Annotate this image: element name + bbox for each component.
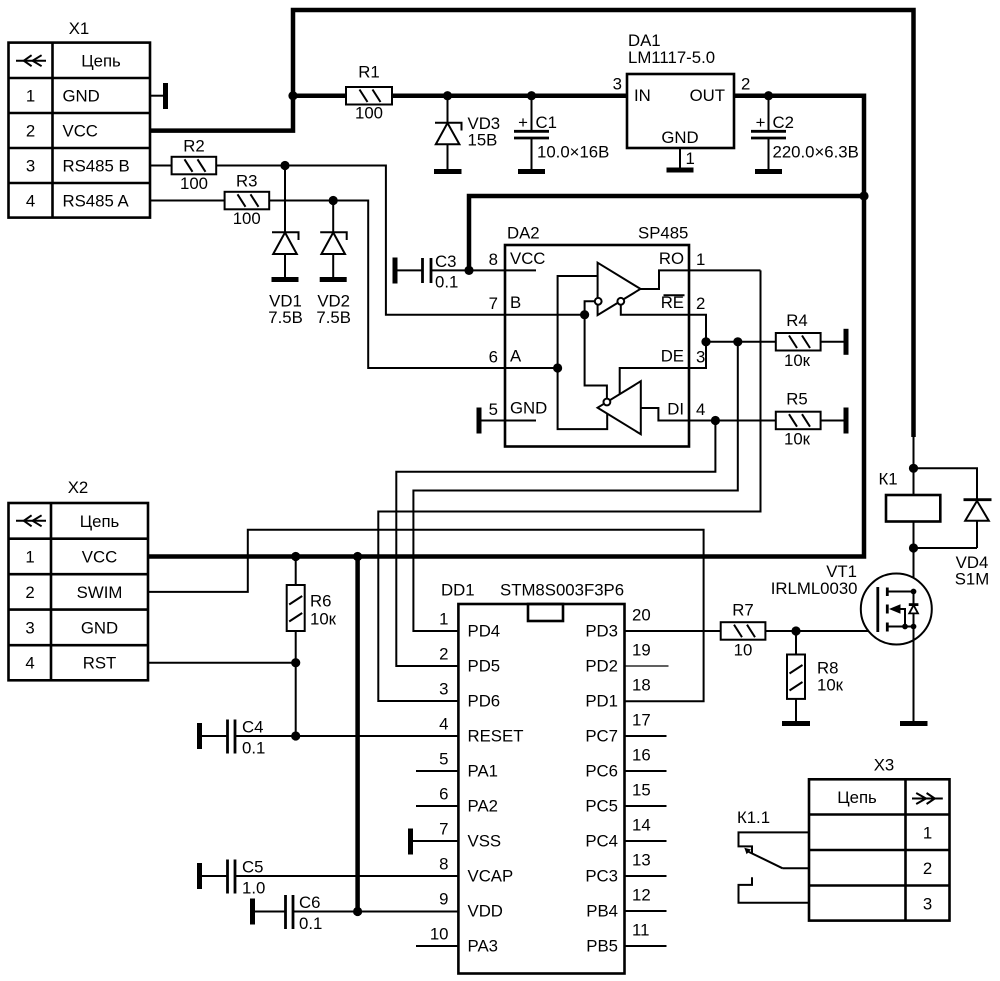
resistor R2 <box>172 137 217 194</box>
svg-text:R3: R3 <box>236 172 257 191</box>
svg-text:IN: IN <box>634 86 651 105</box>
junction node VT1 drain stub <box>911 589 917 595</box>
ground VD2 <box>320 277 347 282</box>
junction node gate at R8 <box>791 626 800 635</box>
capacitor C5 <box>200 857 459 897</box>
svg-text:RO: RO <box>659 249 684 268</box>
svg-text:10: 10 <box>734 641 753 660</box>
transceiver DA2 SP485 box <box>505 224 689 447</box>
zener diode VD3 <box>435 96 500 170</box>
transistor VT1 IRLML0030 <box>771 562 932 645</box>
connector X3 header arrow symbol <box>912 793 943 804</box>
svg-text:PC3: PC3 <box>585 867 618 886</box>
svg-text:1: 1 <box>25 548 34 567</box>
svg-text:GND: GND <box>63 87 100 106</box>
svg-text:PD4: PD4 <box>468 622 501 641</box>
pin 4 DI of DA2 <box>641 400 776 421</box>
svg-text:1.0: 1.0 <box>242 879 265 898</box>
svg-text:3: 3 <box>439 680 448 699</box>
diode VD4 S1M <box>955 500 992 589</box>
svg-text:3: 3 <box>613 75 622 94</box>
junction node B inside DA2 <box>580 310 589 319</box>
svg-text:C1: C1 <box>536 113 557 132</box>
svg-text:VCC: VCC <box>510 249 545 268</box>
connector X2 title <box>68 478 89 497</box>
ground terminal at DA2 pin5 <box>477 408 482 434</box>
junction node RE/DE tie <box>701 337 710 346</box>
relay contact K1.1 arm arrowhead <box>744 848 751 855</box>
pin 6 PA2 stub of DD1 <box>416 785 498 816</box>
wire thick R1 to DA1 IN <box>392 93 627 98</box>
svg-text:X1: X1 <box>69 19 90 38</box>
connector X3 title <box>874 756 895 775</box>
junction node DI to PD5 <box>711 416 720 425</box>
svg-text:PD5: PD5 <box>468 657 501 676</box>
relay contact K1.1 bottom fixed contact <box>739 877 810 903</box>
svg-text:15В: 15В <box>468 131 498 150</box>
wire VSS terminal <box>411 840 459 842</box>
svg-text:16: 16 <box>632 746 651 765</box>
svg-text:STM8S003F3P6: STM8S003F3P6 <box>500 581 624 600</box>
svg-text:VCAP: VCAP <box>468 867 514 886</box>
junction node at VD1 tap <box>280 161 289 170</box>
wire K1 top feed <box>913 437 915 495</box>
resistor R4 <box>706 311 846 370</box>
svg-text:VDD: VDD <box>468 902 503 921</box>
wire X1 pin4 RS485 A to R3 <box>150 200 225 202</box>
ground terminal at C4 <box>197 723 202 749</box>
junction node VT1 source body tie <box>902 624 908 630</box>
svg-text:DA2: DA2 <box>507 224 540 243</box>
pin 2 RE of DA2 with overline <box>620 293 706 394</box>
svg-text:11: 11 <box>632 921 649 940</box>
svg-text:PD1: PD1 <box>585 692 618 711</box>
svg-text:4: 4 <box>25 654 34 673</box>
svg-text:RST: RST <box>83 654 117 673</box>
bubble on receiver enable <box>617 298 624 305</box>
svg-text:4: 4 <box>439 715 448 734</box>
pin 7 VSS of DD1 <box>439 820 501 851</box>
svg-text:PC5: PC5 <box>585 797 618 816</box>
svg-text:X2: X2 <box>68 478 89 497</box>
svg-text:C5: C5 <box>242 857 263 876</box>
svg-text:3: 3 <box>923 895 932 914</box>
junction node RE/DE to PD4 <box>733 337 742 346</box>
svg-text:R4: R4 <box>786 311 807 330</box>
junction node at DA2 VCC pin <box>464 266 473 275</box>
junction node A inside DA2 <box>553 363 562 372</box>
svg-text:7.5В: 7.5В <box>268 308 303 327</box>
pin 8 VCC of DA2 <box>469 249 545 270</box>
svg-text:19: 19 <box>632 641 651 660</box>
pin 5 GND of DA2 <box>479 399 547 421</box>
svg-text:PA1: PA1 <box>468 762 498 781</box>
svg-text:10к: 10к <box>784 351 811 370</box>
receiver input wire <box>558 276 608 429</box>
svg-text:6: 6 <box>439 785 448 804</box>
svg-text:C6: C6 <box>299 893 320 912</box>
svg-text:R5: R5 <box>786 390 807 409</box>
connector X1 table <box>9 43 151 218</box>
svg-text:X3: X3 <box>874 756 895 775</box>
svg-text:VCC: VCC <box>63 122 98 141</box>
connector X2 table <box>9 503 149 680</box>
svg-text:Цепь: Цепь <box>80 512 120 531</box>
capacitor C2 <box>751 96 859 170</box>
pin 6 A of DA2 <box>489 347 558 369</box>
wire X2 RST to R6/C4 node <box>148 663 296 736</box>
svg-text:2: 2 <box>923 859 932 878</box>
wire K1 coil to VT1 drain <box>913 522 915 592</box>
wire R3 to node A (to DA2 pin 6) <box>269 201 505 369</box>
svg-text:4: 4 <box>26 191 35 210</box>
svg-text:VCC: VCC <box>82 548 117 567</box>
wire DI node to MCU PD5 <box>396 421 715 667</box>
ground VD3 <box>434 169 462 174</box>
receiver buffer triangle inside DA2 <box>598 263 641 315</box>
relay coil K1 <box>878 470 940 522</box>
svg-text:RS485 B: RS485 B <box>63 157 130 176</box>
resistor R6 pull-up <box>287 557 337 663</box>
pin 2 PD5 of DD1 <box>439 645 500 676</box>
junction node at VD3 tap <box>443 91 452 100</box>
zener diode VD1 <box>268 166 303 328</box>
svg-text:Цепь: Цепь <box>837 788 877 807</box>
svg-text:4: 4 <box>696 400 705 419</box>
svg-text:1: 1 <box>26 87 35 106</box>
svg-text:IRLML0030: IRLML0030 <box>771 579 858 598</box>
svg-text:R6: R6 <box>310 592 331 611</box>
pin 1 RO of DA2 <box>641 249 761 289</box>
svg-text:8: 8 <box>489 250 498 269</box>
junction node VT1 drain / VD4 <box>909 543 918 552</box>
svg-text:7: 7 <box>439 820 448 839</box>
resistor R5 <box>776 390 846 449</box>
pin 10 PA3 stub of DD1 <box>416 925 498 956</box>
svg-text:220.0×6.3В: 220.0×6.3В <box>773 143 859 162</box>
pin 14 PC4 stub of DD1 <box>585 816 666 851</box>
svg-text:2: 2 <box>439 645 448 664</box>
svg-text:К1: К1 <box>878 470 897 489</box>
pin 3 DE of DA2 <box>661 347 706 367</box>
capacitor C6 <box>253 893 459 933</box>
wire X1 pin1 GND stub <box>150 95 166 97</box>
resistor R3 <box>225 172 270 229</box>
relay contact K1.1 common wire <box>783 867 809 869</box>
capacitor C4 <box>200 717 459 757</box>
pin 4 RESET of DD1 <box>439 715 523 746</box>
svg-text:A: A <box>510 347 522 366</box>
wire VD4 bottom to drain node <box>914 547 978 549</box>
svg-text:13: 13 <box>632 851 651 870</box>
svg-text:PB4: PB4 <box>586 902 618 921</box>
svg-text:10к: 10к <box>310 610 337 629</box>
zener diode VD2 <box>316 201 351 328</box>
wire thick +12V branch to R1 <box>293 93 346 98</box>
ground DA1 <box>667 168 694 173</box>
junction node VT1 source stub <box>911 624 917 630</box>
pin 20 PD3 of DD1 wire to R7 <box>585 606 720 641</box>
svg-text:5: 5 <box>439 750 448 769</box>
svg-text:10к: 10к <box>817 676 844 695</box>
microcontroller DD1 STM8S003F3P6 box <box>441 581 625 974</box>
wire R7 to VT1 gate <box>765 630 877 632</box>
junction node VCC at R6 <box>291 552 300 561</box>
svg-text:VSS: VSS <box>468 832 502 851</box>
svg-text:100: 100 <box>233 209 261 228</box>
svg-text:100: 100 <box>355 104 383 123</box>
svg-text:C3: C3 <box>435 252 456 271</box>
svg-text:C2: C2 <box>773 113 794 132</box>
svg-text:DD1: DD1 <box>441 581 475 600</box>
ground VD1 <box>272 277 299 282</box>
pin 12 PB4 stub of DD1 <box>586 886 666 921</box>
pin 3 PD6 of DD1 <box>439 680 500 711</box>
svg-text:1: 1 <box>439 610 448 629</box>
wire RE/DE node to MCU PD4 <box>413 342 737 631</box>
svg-text:R1: R1 <box>358 63 379 82</box>
svg-text:2: 2 <box>696 294 705 313</box>
svg-text:18: 18 <box>632 676 651 695</box>
svg-text:+: + <box>518 113 528 132</box>
ground terminal at C5 <box>197 863 202 889</box>
svg-text:SWIM: SWIM <box>77 583 123 602</box>
ground VT1 source <box>900 721 928 726</box>
svg-text:0.1: 0.1 <box>299 914 322 933</box>
resistor R1 <box>346 63 392 123</box>
svg-text:3: 3 <box>26 157 35 176</box>
svg-text:PA2: PA2 <box>468 797 498 816</box>
svg-text:100: 100 <box>180 174 208 193</box>
svg-text:C4: C4 <box>242 717 263 736</box>
ground terminal at R5 <box>844 408 849 434</box>
ground R8 <box>782 721 810 726</box>
svg-text:2: 2 <box>26 122 35 141</box>
svg-text:1: 1 <box>696 250 705 269</box>
resistor R8 <box>787 631 844 722</box>
svg-text:PD6: PD6 <box>468 692 501 711</box>
junction node at R1 input <box>288 91 297 100</box>
junction node at C2 tap <box>764 91 773 100</box>
svg-text:+: + <box>756 113 766 132</box>
svg-text:PC6: PC6 <box>585 762 618 781</box>
svg-text:14: 14 <box>632 816 651 835</box>
pin 8 VCAP of DD1 <box>439 855 513 886</box>
svg-text:PD3: PD3 <box>585 622 618 641</box>
driver buffer triangle inside DA2 <box>598 381 641 434</box>
pin 1 PD4 of DD1 <box>439 610 500 641</box>
junction node K1 top / VD4 <box>909 464 918 473</box>
pin 11 PB5 stub of DD1 <box>586 921 666 956</box>
ground terminal at X1 pin1 <box>163 83 168 109</box>
svg-text:2: 2 <box>741 75 750 94</box>
svg-text:OUT: OUT <box>690 86 725 105</box>
junction node RESET at C4 <box>291 731 300 740</box>
svg-text:DE: DE <box>661 347 684 366</box>
wire thick +12V: X1 VCC up over the top to K1 <box>150 10 914 437</box>
svg-text:7.5В: 7.5В <box>316 308 351 327</box>
svg-text:1: 1 <box>686 149 695 168</box>
ground C1 <box>518 169 545 174</box>
svg-text:1: 1 <box>923 824 932 843</box>
wire DA1 pin1 GND <box>679 148 681 168</box>
svg-text:GND: GND <box>661 128 698 147</box>
svg-text:GND: GND <box>81 619 118 638</box>
svg-text:0.1: 0.1 <box>435 273 458 292</box>
svg-text:15: 15 <box>632 781 651 800</box>
ground terminal at C3 <box>393 258 398 284</box>
junction node at VD2 tap <box>329 196 338 205</box>
relay contact K1.1 top fixed contact <box>739 832 810 853</box>
wire to VD4 top <box>914 468 978 499</box>
junction node VCC at VDD branch <box>353 552 362 561</box>
pin 17 PC7 stub of DD1 <box>585 711 666 746</box>
svg-text:2: 2 <box>25 583 34 602</box>
wire R2 to node B (to DA2 pin 7) <box>216 166 505 315</box>
svg-text:RESET: RESET <box>468 727 524 746</box>
connector X3 table <box>809 779 950 920</box>
pin 9 VDD of DD1 <box>439 890 503 921</box>
svg-text:S1M: S1M <box>955 570 990 589</box>
svg-text:3: 3 <box>25 619 34 638</box>
relay contact K1.1 moving arm <box>747 851 783 868</box>
pin 15 PC5 stub of DD1 <box>585 781 666 816</box>
svg-text:10к: 10к <box>784 430 811 449</box>
ground terminal at R4 <box>844 329 849 355</box>
svg-text:GND: GND <box>510 399 547 418</box>
svg-text:R7: R7 <box>732 601 753 620</box>
ground C2 <box>755 169 782 174</box>
pin 19 PD2 stub of DD1 <box>585 641 668 676</box>
svg-text:PC7: PC7 <box>585 727 618 746</box>
bubble on receiver output to B node <box>595 298 602 305</box>
bubble on driver output <box>604 399 611 406</box>
svg-text:7: 7 <box>489 294 498 313</box>
wire B node to receiver bubble <box>585 301 595 314</box>
svg-text:20: 20 <box>632 606 651 625</box>
svg-text:SP485: SP485 <box>638 224 688 243</box>
capacitor C3 <box>395 252 469 292</box>
svg-text:Цепь: Цепь <box>81 51 121 70</box>
junction node at C1 tap <box>527 91 536 100</box>
svg-text:9: 9 <box>439 890 448 909</box>
svg-text:PC4: PC4 <box>585 832 618 851</box>
wire VT1 source to ground <box>913 627 915 723</box>
pin 13 PC3 stub of DD1 <box>585 851 666 886</box>
svg-text:R2: R2 <box>183 137 204 156</box>
svg-text:B: B <box>510 293 521 312</box>
wire thick +5V rail to DA2 VCC <box>469 196 864 270</box>
junction node RST at R6 bottom <box>291 658 300 667</box>
svg-text:К1.1: К1.1 <box>737 808 770 827</box>
ground terminal at MCU VSS <box>408 829 413 855</box>
svg-text:12: 12 <box>632 886 651 905</box>
svg-text:3: 3 <box>696 348 705 367</box>
svg-text:10: 10 <box>430 925 449 944</box>
wire RO to MCU PD6 <box>378 270 760 701</box>
ground terminal at C6 <box>250 899 255 925</box>
pin 7 B of DA2 <box>489 293 585 315</box>
pin 18 PD1 of DD1 <box>585 676 650 711</box>
wire thick VDD branch down to C6/VDD <box>355 557 360 912</box>
svg-text:0.1: 0.1 <box>242 739 265 758</box>
wire B node down to driver output bubble <box>585 315 607 399</box>
svg-text:RS485 A: RS485 A <box>63 191 130 210</box>
svg-text:8: 8 <box>439 855 448 874</box>
svg-text:PA3: PA3 <box>468 937 498 956</box>
connector X2 header arrow symbol <box>16 515 46 526</box>
svg-text:DI: DI <box>667 400 684 419</box>
connector X1 title <box>69 19 90 38</box>
svg-text:5: 5 <box>489 400 498 419</box>
voltage regulator DA1 LM1117-5.0 <box>613 31 751 148</box>
svg-text:LM1117-5.0: LM1117-5.0 <box>628 48 715 67</box>
pin 5 PA1 stub of DD1 <box>416 750 498 781</box>
connector X1 header arrow symbol <box>16 55 46 66</box>
pin 16 PC6 stub of DD1 <box>585 746 666 781</box>
svg-text:PB5: PB5 <box>586 937 618 956</box>
junction node VDD at C6 <box>353 907 362 916</box>
svg-text:10.0×16В: 10.0×16В <box>537 143 609 162</box>
wire thick DA1 OUT down to X2 VCC rail <box>148 96 864 557</box>
wire X2 SWIM to MCU PD1 <box>148 530 704 701</box>
resistor R7 <box>721 601 766 660</box>
wire X1 pin3 RS485 B to R2 <box>150 165 172 167</box>
junction node at 5V rail corner <box>859 191 868 200</box>
svg-text:6: 6 <box>489 348 498 367</box>
capacitor C1 <box>514 96 609 170</box>
svg-text:PD2: PD2 <box>585 657 618 676</box>
svg-text:17: 17 <box>632 711 651 730</box>
